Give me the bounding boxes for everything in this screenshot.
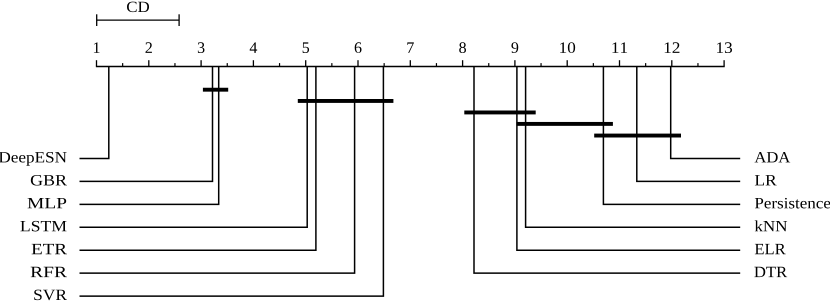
ADA label <box>755 152 791 162</box>
ELR label <box>755 244 786 254</box>
kNN label <box>755 220 787 231</box>
MLP label <box>28 198 67 208</box>
LSTM label <box>20 221 66 232</box>
CD interval bracket <box>97 14 179 26</box>
Persistence label <box>755 198 830 209</box>
clique bar 1 (GBR-MLP) <box>203 88 228 92</box>
clique bar 2 (LSTM-ETR-RFR-SVR) <box>298 99 394 103</box>
ETR label <box>32 244 67 254</box>
MLP rank line <box>80 67 219 205</box>
clique bar 3 (DTR-ELR-kNN) <box>464 111 535 115</box>
DeepESN label <box>0 152 67 166</box>
RFR rank line <box>80 67 355 274</box>
SVR rank line <box>80 67 384 297</box>
DeepESN rank line <box>80 67 109 159</box>
clique bar 5 (Persistence-LR-ADA) <box>594 134 681 138</box>
DTR label <box>754 267 787 277</box>
GBR rank line <box>80 67 213 182</box>
Persistence rank line <box>603 67 740 205</box>
DTR rank line <box>474 67 740 274</box>
LR label <box>755 175 777 185</box>
clique bar 4 (kNN-Persistence) <box>516 122 613 126</box>
LSTM rank line <box>80 67 308 228</box>
RFR label <box>31 267 67 277</box>
GBR label <box>31 175 67 186</box>
LR rank line <box>637 67 740 182</box>
axis major ticks <box>97 60 725 66</box>
CD label <box>127 2 149 13</box>
ELR rank line <box>517 67 740 251</box>
SVR label <box>34 290 67 301</box>
axis minor ticks <box>123 63 698 66</box>
kNN rank line <box>526 67 741 228</box>
axis numbers 1-13 <box>94 42 732 53</box>
ETR rank line <box>80 67 316 251</box>
ADA rank line <box>671 67 741 159</box>
axis line <box>96 66 725 68</box>
